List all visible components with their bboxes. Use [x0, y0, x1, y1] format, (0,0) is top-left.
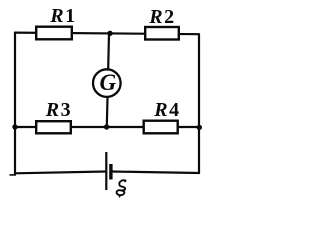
wire: middle horizontal rail [15, 126, 199, 128]
resistor R4 [144, 121, 178, 134]
battery long plate [105, 152, 107, 190]
svg-text:R4: R4 [153, 99, 181, 121]
wire: top horizontal (node A to node B rail) [15, 33, 199, 35]
node dot top (between R1 and R2) [107, 31, 112, 36]
wire: bottom-left corner tick [10, 174, 17, 176]
galvanometer G circle [93, 69, 121, 97]
svg-text:R1: R1 [49, 5, 77, 27]
resistor R2 [145, 27, 179, 40]
svg-text:R3: R3 [45, 99, 73, 121]
svg-text:R2: R2 [148, 6, 176, 28]
wire: bottom left segment to battery [15, 172, 106, 174]
node dot center middle [104, 124, 109, 129]
wire: left vertical [14, 32, 16, 175]
svg-text:G: G [99, 70, 116, 95]
label EMF script-E [117, 180, 126, 196]
wire: bottom right segment from battery [111, 172, 199, 174]
node dot left middle [12, 124, 17, 129]
resistor R1 [36, 27, 72, 40]
wire: right vertical [198, 33, 200, 174]
wire: galvanometer branch vertical [107, 34, 109, 127]
battery short plate [109, 164, 112, 180]
node dot right middle [197, 125, 202, 130]
resistor R3 [36, 121, 71, 133]
